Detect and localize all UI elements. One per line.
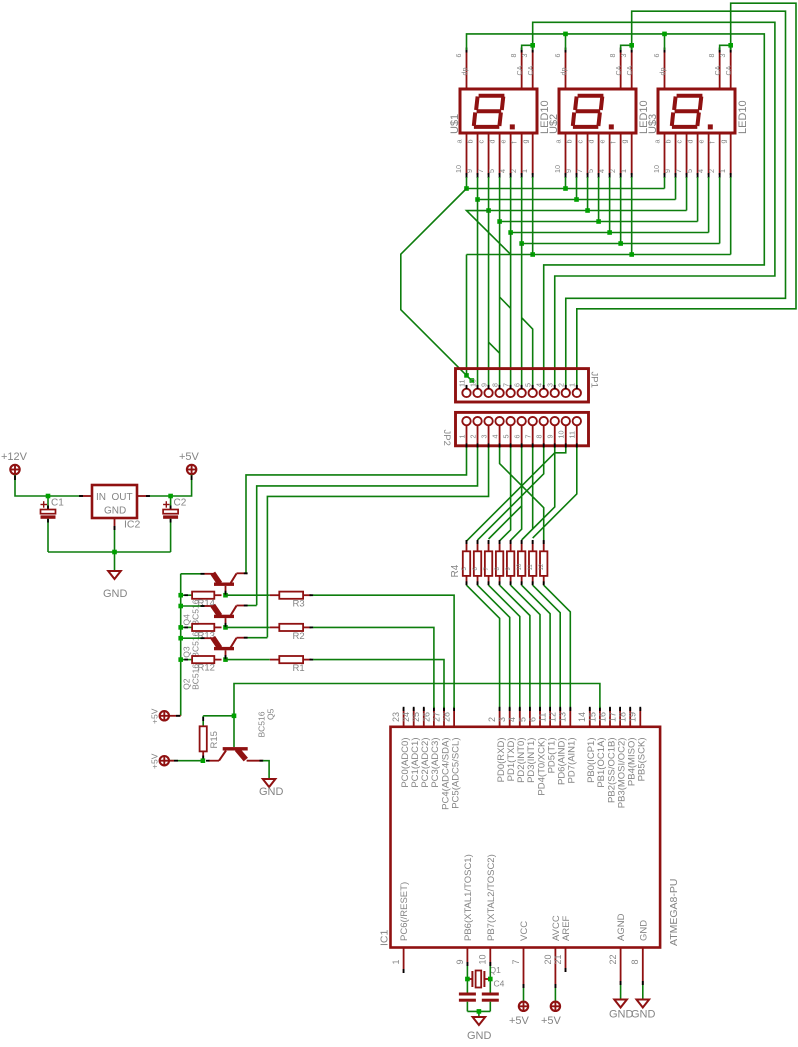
U$3 pin 10 (a) bbox=[652, 133, 666, 178]
net CA3: wire to JP1 bbox=[577, 3, 796, 387]
svg-text:26: 26 bbox=[421, 712, 431, 722]
net SEG-f: horizontal bus wire bbox=[522, 243, 720, 245]
IC1 pin 14 PB0(ICP1) bbox=[577, 707, 597, 783]
svg-text:5: 5 bbox=[487, 169, 496, 173]
supply +5V symbol P3 bbox=[160, 711, 169, 720]
IC1 pin 19 PB5(SCK) bbox=[628, 707, 648, 782]
svg-text:16: 16 bbox=[597, 712, 607, 722]
svg-text:11: 11 bbox=[528, 564, 534, 571]
IC2 pin GND bbox=[104, 506, 126, 531]
junction XTAL1 bbox=[465, 977, 470, 982]
net SEG-f: U$2 pin drop wire bbox=[620, 177, 622, 244]
net XTAL1 wire bbox=[466, 966, 468, 993]
Q3 emitter wire bbox=[181, 605, 205, 607]
net SEG-c: branch jog wire bbox=[489, 342, 500, 353]
junction SEG-g at U$1 bbox=[530, 252, 535, 257]
svg-text:PD7(AIN1): PD7(AIN1) bbox=[567, 738, 578, 784]
net SEG-b: U$2 pin drop wire bbox=[576, 177, 578, 200]
net base row wire to R3 bbox=[226, 594, 270, 596]
svg-text:R1: R1 bbox=[293, 663, 305, 674]
svg-text:GND: GND bbox=[631, 1009, 656, 1021]
svg-text:2: 2 bbox=[608, 169, 617, 173]
svg-text:6: 6 bbox=[553, 54, 562, 58]
svg-text:a: a bbox=[553, 140, 562, 144]
net CA3: common-anode tie wire U$3 bbox=[720, 45, 731, 50]
resistor R13 bbox=[181, 624, 222, 631]
net SEG-f: U$1 pin drop wire bbox=[521, 177, 523, 244]
svg-text:3: 3 bbox=[718, 54, 727, 58]
svg-text:JP2: JP2 bbox=[441, 430, 452, 446]
svg-text:+5V: +5V bbox=[509, 1015, 530, 1027]
svg-text:22: 22 bbox=[608, 954, 618, 964]
net DIG3: wire JP2 pin3 to Q2 collector bbox=[267, 448, 488, 638]
svg-text:d: d bbox=[685, 140, 694, 144]
svg-text:GND: GND bbox=[259, 786, 284, 798]
resistor R4-8 bbox=[539, 540, 547, 585]
junction crystal ground bbox=[477, 1009, 482, 1014]
net SEG-g: bus extension wire bbox=[467, 254, 533, 256]
JP2 pin 11 bbox=[568, 417, 581, 448]
svg-text:4: 4 bbox=[696, 169, 705, 173]
net +12V wire bbox=[15, 475, 80, 496]
7-segment display U$3 bbox=[658, 89, 735, 133]
svg-text:a: a bbox=[652, 140, 661, 144]
IC1 pin 1 PC6(/RESET) bbox=[391, 882, 410, 973]
voltage regulator IC2 bbox=[92, 485, 137, 518]
svg-text:4: 4 bbox=[535, 383, 544, 387]
supply +5V bbox=[179, 451, 200, 463]
net S6b: extension wire to R4-5 bbox=[511, 506, 522, 540]
svg-text:7: 7 bbox=[523, 435, 532, 439]
junction rail at R13 bbox=[178, 625, 183, 630]
net S11: wire JP2 pin11 to R4-7 bbox=[533, 448, 577, 539]
svg-text:9: 9 bbox=[546, 435, 555, 439]
U$2 name labels bbox=[548, 100, 650, 134]
svg-text:PB6(XTAL1/TOSC1): PB6(XTAL1/TOSC1) bbox=[463, 854, 474, 941]
svg-text:AGND: AGND bbox=[616, 913, 627, 941]
svg-text:IC2: IC2 bbox=[124, 519, 141, 531]
junction rail at Q3 emitter bbox=[178, 604, 183, 609]
net CA1: wire to JP1 bbox=[533, 22, 775, 387]
junction SEG-b at U$2 bbox=[574, 197, 579, 202]
junction CA2 bbox=[629, 43, 634, 48]
transistor Q2 BC516 bbox=[205, 638, 248, 660]
JP2 pin 1 bbox=[457, 417, 470, 448]
net SEG-c: left extension and diagonal branch wire bbox=[467, 211, 511, 255]
crystal Q1 bbox=[467, 971, 490, 988]
JP1 pin 1 bbox=[568, 383, 581, 397]
resistor R4-4 bbox=[495, 540, 503, 585]
U$1 name labels bbox=[449, 100, 551, 134]
U$2 pin 10 (a) bbox=[553, 133, 567, 178]
U$3 pin 2 (f) bbox=[707, 133, 721, 178]
svg-text:7: 7 bbox=[674, 169, 683, 173]
net SEG-g: U$3 pin drop wire bbox=[730, 177, 732, 255]
svg-text:U$1: U$1 bbox=[449, 114, 461, 134]
U$3 pin 7 (c) bbox=[674, 133, 688, 178]
U$2 digit segments bbox=[573, 96, 614, 130]
ground GND4 bbox=[614, 1000, 627, 1008]
svg-text:c: c bbox=[674, 140, 683, 144]
svg-text:g: g bbox=[718, 140, 727, 144]
net SEG-e: U$2 pin drop wire bbox=[609, 177, 611, 233]
svg-text:C2: C2 bbox=[174, 498, 187, 509]
svg-text:JP1: JP1 bbox=[589, 372, 600, 388]
svg-text:e: e bbox=[696, 140, 705, 144]
svg-text:PB7(XTAL2/TOSC2): PB7(XTAL2/TOSC2) bbox=[486, 854, 497, 941]
svg-text:8: 8 bbox=[535, 435, 544, 439]
net SEG-c: U$1 pin drop wire bbox=[488, 177, 490, 211]
Q2 emitter wire bbox=[181, 637, 205, 639]
svg-text:4: 4 bbox=[498, 169, 507, 173]
junction SEG-a at U$1 bbox=[464, 186, 469, 191]
svg-text:5: 5 bbox=[501, 434, 510, 438]
svg-text:3: 3 bbox=[546, 383, 555, 387]
net SEG-c: drop wire to JP1 pin 9 bbox=[488, 211, 490, 388]
svg-text:+5V: +5V bbox=[179, 451, 200, 463]
IC1 pin 24 PC1(ADC1) bbox=[401, 707, 421, 788]
svg-text:1: 1 bbox=[619, 169, 628, 173]
svg-text:8: 8 bbox=[608, 54, 617, 58]
junction SEG-c at U$2 bbox=[585, 208, 590, 213]
capacitor C5 bbox=[459, 993, 476, 1012]
svg-text:3: 3 bbox=[497, 717, 507, 722]
net SEG-f: drop wire to JP1 pin 6 bbox=[521, 244, 523, 388]
U$1 pin 3 (CA) bbox=[520, 48, 535, 90]
IC1 pin 12 PD6(AIND) bbox=[548, 707, 568, 785]
U$3 name labels bbox=[647, 100, 749, 134]
IC1 pin 26 PC3(ADC3) bbox=[421, 707, 441, 788]
svg-text:R2: R2 bbox=[293, 631, 305, 642]
svg-text:GND: GND bbox=[609, 1009, 634, 1021]
net SEG-d: horizontal bus wire bbox=[500, 221, 698, 223]
svg-text:7: 7 bbox=[575, 169, 584, 173]
Q3 name labels bbox=[182, 631, 201, 657]
svg-text:GND: GND bbox=[103, 588, 128, 600]
JP2 pin 5 bbox=[501, 417, 514, 448]
svg-text:12: 12 bbox=[548, 712, 558, 722]
IC1 pin 7 VCC bbox=[511, 921, 530, 988]
IC1 pin 3 PD1(TXD) bbox=[497, 707, 517, 782]
svg-text:2: 2 bbox=[509, 169, 518, 173]
transistor Q5 BC516 bbox=[206, 747, 264, 762]
svg-text:U$3: U$3 bbox=[647, 114, 659, 134]
junction rail at R12 bbox=[178, 657, 183, 662]
junction +5V at C2 bbox=[168, 494, 173, 499]
svg-text:PB5(SCK): PB5(SCK) bbox=[637, 738, 648, 782]
net wire R1 to IC1 PC4 bbox=[313, 660, 444, 708]
net PD2: wire R4-3 to IC1 bbox=[489, 585, 520, 708]
svg-text:R15: R15 bbox=[209, 731, 220, 748]
supply +12V bbox=[1, 451, 28, 463]
svg-text:1: 1 bbox=[718, 169, 727, 173]
svg-text:19: 19 bbox=[628, 712, 638, 722]
svg-text:C4: C4 bbox=[494, 979, 505, 989]
svg-text:13: 13 bbox=[558, 712, 568, 722]
Q4 name labels bbox=[182, 599, 201, 625]
junction CA3 bbox=[728, 43, 733, 48]
net crystal ground wire bbox=[467, 1010, 490, 1012]
svg-text:10: 10 bbox=[553, 165, 562, 173]
net GND rail wire bbox=[48, 551, 171, 553]
svg-text:d: d bbox=[487, 140, 496, 144]
svg-text:BC516: BC516 bbox=[190, 599, 200, 625]
JP1 pin 2 bbox=[557, 383, 570, 397]
U$3 pin 5 (d) bbox=[685, 133, 699, 178]
svg-text:b: b bbox=[564, 140, 573, 144]
IC1 pin 5 PD3(INT1) bbox=[517, 707, 537, 783]
net CA2: wire to JP1 bbox=[566, 11, 786, 387]
U$3 pin 4 (e) bbox=[696, 133, 710, 178]
net SEG-d: U$1 pin drop wire bbox=[499, 177, 501, 222]
svg-text:7: 7 bbox=[476, 169, 485, 173]
svg-text:R3: R3 bbox=[293, 599, 305, 610]
svg-text:1: 1 bbox=[568, 383, 577, 387]
U$2 pin 7 (c) bbox=[575, 133, 589, 178]
svg-text:9: 9 bbox=[564, 169, 573, 173]
net PD5: wire R4-6 to IC1 bbox=[522, 585, 550, 708]
net GND wire bbox=[642, 985, 644, 1000]
ground GND1 bbox=[108, 571, 121, 579]
net SEG-b: drop wire to JP1 pin 10 bbox=[477, 200, 479, 388]
net S9: wire JP2 pin9-pin10 tie bbox=[555, 448, 566, 453]
svg-text:ATMEGA8-PU: ATMEGA8-PU bbox=[668, 879, 680, 946]
svg-text:4: 4 bbox=[597, 169, 606, 173]
capacitor C4 bbox=[482, 993, 499, 1012]
U$3 pin 1 (g) bbox=[718, 133, 732, 178]
junction Q3 base bbox=[223, 625, 228, 630]
net SEG-e: U$1 pin drop wire bbox=[510, 177, 512, 233]
supply +5V symbol P6 bbox=[551, 1002, 560, 1011]
net S8: wire JP2 pin8 to R4-2 bbox=[478, 448, 544, 541]
svg-text:LED10: LED10 bbox=[737, 100, 749, 134]
net S5: wire JP2 pin5 to R4-4 bbox=[500, 448, 511, 541]
net SEG-g: U$1 pin drop wire bbox=[532, 177, 534, 255]
JP1 pin 11 bbox=[457, 380, 470, 398]
IC1 pin 28 PC5(ADC5/SCL) bbox=[442, 707, 462, 809]
Q2 name labels bbox=[182, 664, 201, 690]
JP2 pin 6 bbox=[512, 417, 525, 448]
supply +12V symbol P1 bbox=[10, 465, 19, 474]
U$1 pin 1 (g) bbox=[520, 133, 534, 178]
svg-text:21: 21 bbox=[553, 954, 563, 964]
IC1 pin 13 PD7(AIN1) bbox=[558, 707, 578, 784]
net SEG-a: U$2 pin drop wire bbox=[565, 177, 567, 189]
U$1 digit segments bbox=[474, 96, 515, 130]
svg-text:2: 2 bbox=[487, 717, 497, 722]
IC1 pin 16 PB2(SS/OC1B) bbox=[597, 707, 617, 803]
svg-text:12: 12 bbox=[539, 563, 545, 570]
junction base node bbox=[232, 714, 237, 719]
IC1 pin 23 PC0(ADC0) bbox=[391, 707, 411, 788]
svg-text:10: 10 bbox=[652, 165, 661, 173]
7-segment display U$2 bbox=[559, 89, 636, 133]
IC1 pin 8 GND bbox=[630, 920, 649, 985]
svg-text:27: 27 bbox=[431, 712, 441, 722]
svg-text:dp: dp bbox=[658, 68, 667, 76]
svg-text:CA: CA bbox=[724, 65, 733, 75]
IC1 pin 18 PB4(MISO) bbox=[618, 707, 638, 786]
net base row wire to R2 bbox=[226, 626, 270, 628]
junction DP at U$3 dp bbox=[662, 32, 667, 37]
svg-text:28: 28 bbox=[442, 712, 452, 722]
svg-text:dp: dp bbox=[559, 68, 568, 76]
svg-text:BC516: BC516 bbox=[190, 664, 200, 690]
svg-text:b: b bbox=[465, 140, 474, 144]
net PD7: wire R4-8 to IC1 bbox=[544, 585, 571, 708]
svg-text:g: g bbox=[520, 140, 529, 144]
svg-text:11: 11 bbox=[538, 713, 548, 722]
net SEG-g: U$2 pin drop wire bbox=[631, 177, 633, 255]
svg-text:23: 23 bbox=[391, 712, 401, 722]
svg-text:U$2: U$2 bbox=[548, 114, 560, 134]
net wire Q5 base to IC1 PB1 bbox=[234, 684, 600, 716]
svg-text:b: b bbox=[663, 140, 672, 144]
Q4 collector wire bbox=[246, 572, 247, 574]
resistor R2 bbox=[270, 624, 314, 631]
U$3 pin 3 (CA) bbox=[718, 48, 733, 90]
JP1 pin 9 bbox=[479, 383, 492, 397]
junction SEG-e at U$2 bbox=[607, 230, 612, 235]
svg-text:f: f bbox=[509, 142, 518, 144]
7-segment display U$1 bbox=[460, 89, 537, 133]
junction DP at U$2 dp bbox=[563, 32, 568, 37]
U$2 pin 8 (CA) bbox=[608, 48, 623, 90]
JP1 pin 4 bbox=[535, 383, 548, 397]
net PD6: wire R4-7 to IC1 bbox=[533, 585, 561, 708]
resistor R15 bbox=[200, 716, 207, 761]
net SEG-a: U$3 pin drop wire bbox=[664, 177, 666, 189]
svg-text:CA: CA bbox=[713, 65, 722, 75]
svg-text:PC5(ADC5/SCL): PC5(ADC5/SCL) bbox=[450, 738, 461, 809]
net +5V wire to Q5 bbox=[170, 760, 203, 762]
net S9b: wire to R4-6 bbox=[522, 453, 555, 540]
net SEG-a: U$1 pin drop wire bbox=[466, 177, 468, 189]
svg-text:GND: GND bbox=[638, 920, 649, 941]
svg-text:CA: CA bbox=[526, 65, 535, 75]
IC1 pin 6 PD4(T0/XCK) bbox=[527, 707, 547, 796]
svg-text:6: 6 bbox=[652, 54, 661, 58]
resistor R4-3 bbox=[484, 540, 492, 585]
net SEG-f: branch jog wire to JP1 pin 5 bbox=[522, 318, 533, 387]
transistor Q4 BC516 bbox=[205, 573, 248, 595]
svg-text:3: 3 bbox=[520, 54, 529, 58]
net CA1: common-anode tie wire U$1 bbox=[522, 45, 533, 50]
junction +12V at C1 bbox=[46, 494, 51, 499]
U$2 pin 6 (dp) bbox=[553, 48, 568, 90]
svg-text:10: 10 bbox=[468, 379, 477, 387]
net AGND wire bbox=[620, 985, 622, 1000]
U$1 pin 9 (b) bbox=[465, 133, 479, 178]
U$3 pin 8 (CA) bbox=[707, 48, 722, 90]
net SEG-e: U$3 pin drop wire bbox=[708, 177, 710, 233]
net SEG-g: horizontal bus wire bbox=[533, 254, 731, 256]
net DP: display 2 dp drop wire bbox=[565, 34, 567, 50]
svg-text:14: 14 bbox=[577, 712, 587, 722]
svg-text:8: 8 bbox=[630, 959, 640, 964]
svg-text:CA: CA bbox=[614, 65, 623, 75]
svg-text:8: 8 bbox=[490, 383, 499, 387]
junction CA1 bbox=[530, 43, 535, 48]
net DIG1: wire JP2 pin1 to Q4 collector bbox=[246, 448, 467, 574]
U$2 pin 1 (g) bbox=[619, 133, 633, 178]
JP2 pin 3 bbox=[479, 417, 492, 448]
U$3 pin 6 (dp) bbox=[652, 48, 667, 90]
net CA2: common-anode tie wire U$2 bbox=[621, 45, 632, 50]
U$1 pin 4 (e) bbox=[498, 133, 512, 178]
JP1 pin 3 bbox=[546, 383, 559, 397]
supply +5V symbol P2 bbox=[187, 465, 196, 474]
junction SEG-d at U$1 bbox=[497, 219, 502, 224]
JP2 pin 10 bbox=[557, 417, 570, 448]
net XTAL2 wire bbox=[489, 966, 491, 993]
junction SEG-f at U$1 bbox=[519, 241, 524, 246]
net PD1: wire R4-2 to IC1 bbox=[478, 585, 510, 708]
svg-text:R4: R4 bbox=[450, 564, 461, 577]
ground GND3 bbox=[473, 1017, 486, 1025]
IC1 pin 9 PB6(XTAL1/TOSC1) bbox=[455, 854, 474, 966]
JP2 pin 2 bbox=[468, 417, 481, 448]
JP2 pin 9 bbox=[546, 417, 559, 448]
svg-text:2: 2 bbox=[557, 383, 566, 387]
junction GND rail bbox=[112, 550, 117, 555]
IC1 pin 22 AGND bbox=[608, 913, 627, 985]
svg-text:5: 5 bbox=[685, 169, 694, 173]
junction SEG-g at U$2 bbox=[629, 252, 634, 257]
Q2 collector wire bbox=[247, 637, 267, 639]
svg-text:3: 3 bbox=[619, 54, 628, 58]
net SEG-g: left extension wire to JP1 pin 11 bbox=[466, 255, 468, 376]
svg-text:15: 15 bbox=[587, 712, 597, 722]
svg-text:+5V: +5V bbox=[541, 1015, 562, 1027]
JP1 pin 7 bbox=[501, 383, 514, 397]
JP1 pin 8 bbox=[490, 383, 503, 397]
svg-text:AREF: AREF bbox=[561, 915, 572, 941]
net SEG-f: U$3 pin drop wire bbox=[719, 177, 721, 244]
svg-text:18: 18 bbox=[618, 712, 628, 722]
svg-text:e: e bbox=[498, 140, 507, 144]
net +5V rail wire (emitters) bbox=[180, 574, 182, 716]
U$2 pin 4 (e) bbox=[597, 133, 611, 178]
capacitor C2 bbox=[163, 496, 178, 552]
JP2 pin 7 bbox=[523, 417, 536, 448]
svg-text:10: 10 bbox=[517, 563, 523, 570]
JP1 pin 6 bbox=[512, 383, 525, 397]
svg-text:4: 4 bbox=[490, 435, 499, 439]
svg-text:10: 10 bbox=[478, 954, 488, 964]
U$2 pin 3 (CA) bbox=[619, 48, 634, 90]
resistor R4-5 bbox=[506, 540, 514, 585]
U$1 pin 2 (f) bbox=[509, 133, 523, 178]
junction XTAL2 bbox=[488, 977, 493, 982]
IC1 pin 2 PD0(RXD) bbox=[487, 707, 507, 783]
U$1 pin 5 (d) bbox=[487, 133, 501, 178]
svg-text:20: 20 bbox=[543, 954, 553, 964]
net SEG-b: horizontal bus wire bbox=[478, 199, 676, 201]
junction SEG-a inside JP1 bbox=[470, 378, 475, 383]
junction rail at R14 bbox=[178, 593, 183, 598]
svg-text:f: f bbox=[608, 142, 617, 144]
svg-text:10: 10 bbox=[557, 431, 566, 439]
svg-text:VCC: VCC bbox=[519, 921, 530, 941]
microcontroller IC1 ATMEGA8-PU bbox=[391, 727, 661, 948]
net AVCC wire bbox=[554, 988, 556, 1001]
svg-text:dp: dp bbox=[460, 68, 469, 76]
svg-text:CA: CA bbox=[515, 65, 524, 75]
net SEG-d: branch jog wire bbox=[500, 297, 511, 308]
junction rail at Q2 emitter bbox=[178, 636, 183, 641]
svg-text:GND: GND bbox=[467, 1030, 492, 1042]
